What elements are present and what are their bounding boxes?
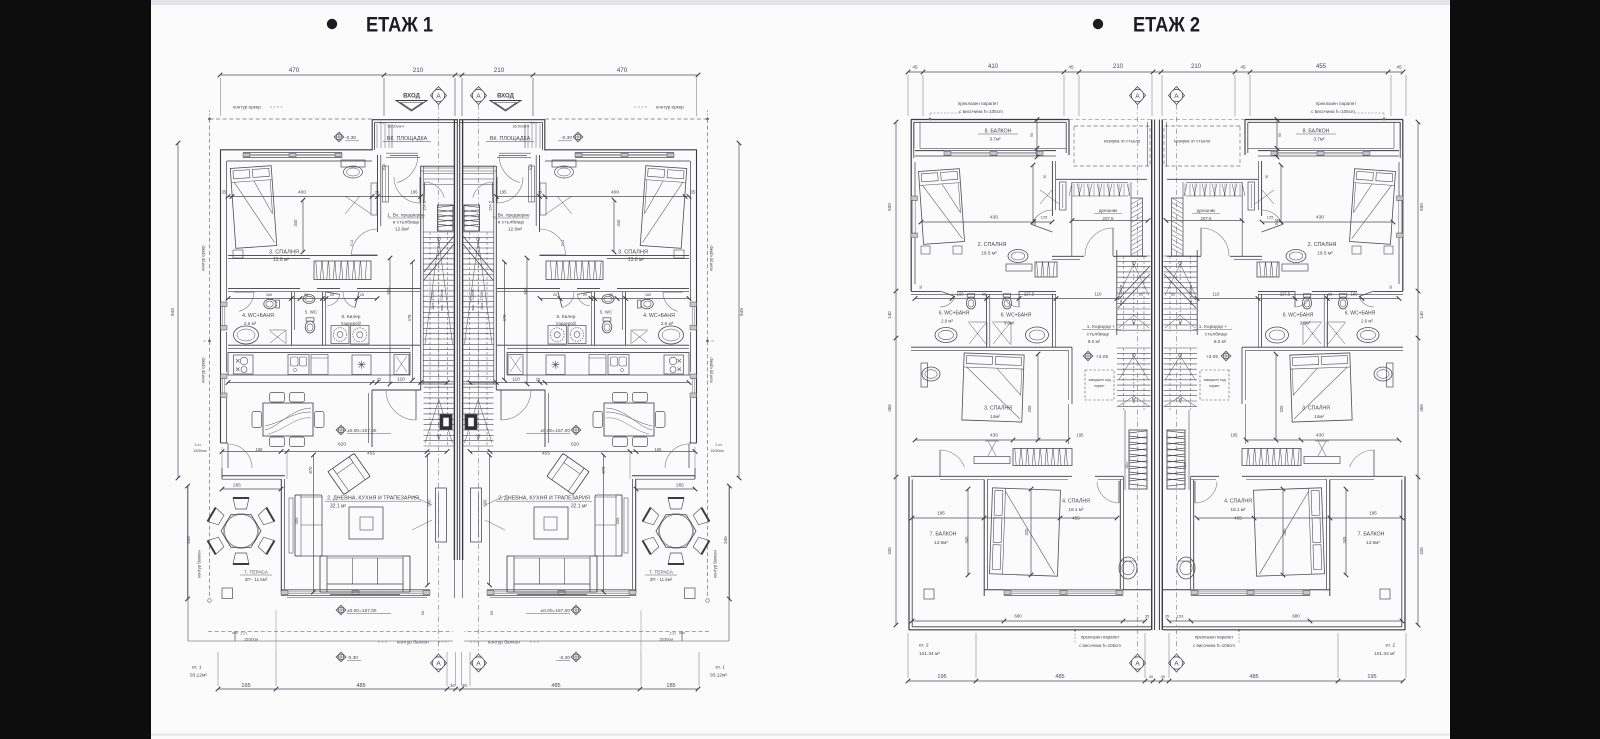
dim vertical 945 [738, 143, 740, 478]
fridge [394, 355, 409, 375]
shower corner [269, 330, 286, 344]
dressing table b2 [1282, 264, 1308, 271]
dreshnik comb hatch [1069, 184, 1072, 197]
svg-text:5. WC: 5. WC [600, 310, 612, 315]
svg-text:15/30см: 15/30см [193, 449, 207, 453]
bed b4 [990, 488, 1061, 576]
bed b4 [1254, 488, 1325, 576]
bed b3 [1290, 353, 1352, 422]
svg-text:преклазен парапет: преклазен парапет [1316, 101, 1357, 106]
svg-text:12.6м²: 12.6м² [395, 227, 410, 233]
svg-text:4. WC+БАНЯ: 4. WC+БАНЯ [643, 313, 675, 319]
stove [664, 355, 684, 374]
entry triangle [490, 101, 521, 112]
svg-text:8. БАЛКОН: 8. БАЛКОН [1303, 129, 1330, 135]
stair bottom walls [463, 383, 496, 385]
svg-text:485: 485 [551, 683, 560, 689]
svg-text:18.1 м²: 18.1 м² [1231, 507, 1246, 512]
svg-text:ет. 1: ет. 1 [192, 665, 202, 671]
svg-text:ВК. ПЛОЩАДКА: ВК. ПЛОЩАДКА [387, 136, 428, 142]
svg-text:160: 160 [645, 293, 651, 297]
parapet dashed leader bottom [1238, 630, 1240, 643]
svg-text:165: 165 [241, 683, 250, 689]
svg-text:3.6м²: 3.6м² [1300, 321, 1311, 326]
section marker p2 [1169, 87, 1185, 105]
svg-text:A: A [476, 93, 481, 100]
outer left wall [910, 162, 912, 291]
svg-text:+3.05: +3.05 [1096, 354, 1108, 360]
svg-text:A: A [1135, 93, 1140, 100]
parapet dashed leader top [1383, 113, 1385, 119]
bedroom4 top wall [984, 475, 1072, 477]
party wall p2 [1161, 120, 1163, 631]
window band bottom (living) [281, 589, 430, 591]
title bullet 2 [1093, 19, 1103, 29]
bottom extension lines [698, 652, 700, 686]
dim b4/balc [1197, 517, 1402, 519]
svg-text:/гардероб/: /гардероб/ [341, 321, 362, 326]
dressing b3 [1304, 457, 1340, 464]
bedroom4 right wall [1119, 480, 1121, 590]
nightstand [233, 250, 243, 258]
door bedroom2 [1262, 210, 1283, 225]
wall: bath bottom [228, 344, 420, 346]
svg-text:19.5 м²: 19.5 м² [981, 251, 997, 257]
entry triangle [396, 101, 427, 112]
desk right wall [371, 183, 377, 215]
svg-text:-0.30: -0.30 [561, 135, 572, 141]
dreshnik shaft hatch [1172, 198, 1184, 256]
sofa [320, 556, 410, 592]
window band bedroom2 top [944, 150, 1043, 152]
bath divider [986, 294, 988, 347]
svg-text:845: 845 [386, 287, 391, 295]
svg-text:680: 680 [1014, 614, 1022, 619]
svg-text:2. ДНЕВНА, КУХНЯ И ТРАПЕЗАРИЯ: 2. ДНЕВНА, КУХНЯ И ТРАПЕЗАРИЯ [327, 496, 419, 502]
svg-text:завършен под: завършен под [1088, 378, 1110, 382]
party wall [453, 120, 455, 560]
svg-text:430: 430 [990, 433, 998, 439]
wall: wing top outer [545, 149, 697, 151]
svg-text:вис. 17/26см: вис. 17/26см [440, 289, 444, 311]
svg-text:2. СПАЛНЯ: 2. СПАЛНЯ [978, 242, 1007, 248]
svg-text:2.6 м³: 2.6 м³ [244, 321, 257, 326]
bedroom4 right wall [1193, 480, 1195, 590]
tv on party wall [471, 488, 482, 542]
svg-text:210: 210 [1191, 64, 1202, 70]
under-stair closet hatch [464, 205, 480, 231]
svg-text:преклазен парапет: преклазен парапет [1195, 635, 1234, 640]
svg-text:90: 90 [1389, 285, 1393, 289]
svg-text:контур балкон: контур балкон [397, 640, 429, 646]
nightstands b2 [1384, 246, 1393, 254]
dim b3 430 [915, 439, 1068, 441]
wall: wing top outer [220, 149, 372, 151]
svg-text:±0.00=157.00: ±0.00=157.00 [347, 428, 377, 434]
wall: bath top y288 [228, 287, 300, 289]
svg-text:15/30см: 15/30см [710, 449, 724, 453]
stairs cut p2 [1164, 266, 1196, 308]
svg-text:19.5 м²: 19.5 м² [1317, 251, 1333, 257]
nightstands b2 [921, 246, 930, 254]
terrace slab edge [728, 486, 730, 641]
svg-text:345: 345 [723, 536, 728, 544]
svg-text:18ст. 17/26с: 18ст. 17/26с [431, 290, 435, 310]
svg-text:90: 90 [919, 285, 923, 289]
svg-text:16/30см+г: 16/30см+г [387, 125, 405, 129]
svg-text:485: 485 [1249, 674, 1258, 680]
svg-text:95: 95 [1328, 292, 1333, 297]
window band bedroom2 top [1271, 150, 1370, 152]
wc small: sink+toilet [303, 295, 315, 304]
balcony jamb left [913, 122, 915, 148]
svg-text:195: 195 [500, 190, 508, 195]
svg-text:6 ст.: 6 ст. [530, 121, 537, 125]
svg-text:345: 345 [186, 536, 191, 544]
section marker p2 [1130, 87, 1146, 105]
wall: left outer [696, 150, 698, 443]
dreshnik dim [1166, 220, 1242, 222]
planter [222, 588, 233, 599]
bench vertical [295, 495, 322, 556]
balcony top: outer walls [911, 119, 1069, 121]
svg-text:20: 20 [583, 293, 587, 297]
svg-text:500: 500 [1419, 203, 1424, 211]
partition bedroom2/closet [1261, 161, 1263, 216]
dishwasher [589, 355, 606, 375]
top gray strip [151, 0, 1450, 5]
corridor mid area walls [1241, 347, 1243, 404]
dim bedroom 400 [496, 196, 689, 198]
balcony floor edge [920, 147, 1066, 149]
bathtub [659, 326, 684, 344]
unit left [176, 78, 533, 686]
svg-text:4. WC+БАНЯ: 4. WC+БАНЯ [242, 313, 274, 319]
svg-text:контур еркер: контур еркер [656, 105, 684, 110]
dishwasher [311, 355, 328, 375]
door from hall [394, 177, 420, 203]
svg-text:дрешник: дрешник [1099, 208, 1119, 213]
vertical interior dims p2 [1032, 165, 1034, 222]
svg-text:160: 160 [1351, 292, 1359, 297]
svg-text:25: 25 [375, 190, 380, 195]
svg-text:18.1 м²: 18.1 м² [1069, 507, 1084, 512]
svg-text:±0.00=157.00: ±0.00=157.00 [541, 428, 571, 434]
hall shelf [383, 166, 389, 202]
svg-text:140: 140 [887, 311, 892, 319]
bottom extension lines [217, 652, 219, 686]
stove [234, 355, 254, 374]
svg-text:165: 165 [256, 447, 264, 452]
svg-text:с височина h=105cm: с височина h=105cm [1193, 643, 1235, 648]
svg-text:+3.05: +3.05 [1206, 354, 1218, 360]
dim terrace 265 [636, 488, 695, 490]
svg-text:35: 35 [691, 190, 696, 195]
svg-text:154.5: 154.5 [488, 200, 493, 211]
svg-text:345: 345 [1342, 536, 1347, 544]
wc small: sink+toilet [602, 295, 614, 304]
plant stand [1119, 557, 1137, 579]
svg-text:478: 478 [502, 314, 507, 322]
svg-text:870: 870 [308, 466, 313, 474]
dim left vertical p2 [1417, 122, 1419, 625]
svg-text:45: 45 [912, 65, 918, 71]
svg-text:контур еркер: контур еркер [201, 245, 206, 271]
svg-text:227.5: 227.5 [1024, 292, 1035, 297]
dressing b3 [974, 457, 1010, 464]
svg-text:7. БАЛКОН: 7. БАЛКОН [1358, 532, 1385, 538]
wall: left outer [220, 150, 222, 443]
svg-text:93,12м²: 93,12м² [710, 673, 727, 679]
unit right (mirror) [384, 78, 741, 686]
svg-text:455: 455 [1234, 516, 1242, 521]
entrance platform [372, 119, 458, 121]
svg-text:478: 478 [407, 314, 412, 322]
section marker bottom [471, 654, 487, 672]
oven/asterisk unit [352, 355, 371, 375]
svg-text:207.5: 207.5 [1103, 216, 1115, 221]
svg-text:вис. 17/26см: вис. 17/26см [471, 289, 475, 311]
svg-text:ВХОД: ВХОД [497, 94, 515, 100]
closet dreshnik walls [1167, 178, 1258, 180]
wardrobe b3 [1242, 449, 1301, 466]
window top wall [243, 151, 342, 153]
svg-text:90: 90 [420, 610, 425, 615]
section marker top [431, 87, 447, 105]
svg-text:2 ст.: 2 ст. [194, 443, 201, 447]
doors baths p2 [940, 297, 955, 308]
doors baths p2 [1359, 297, 1374, 308]
svg-text:210: 210 [413, 67, 424, 74]
wall: terrace door area [689, 442, 697, 444]
svg-text:90: 90 [1043, 175, 1047, 179]
window band b4 bottom [1004, 589, 1123, 591]
balcony small sq [924, 589, 934, 599]
bath bottom wall [1242, 346, 1403, 348]
svg-text:контур балкон: контур балкон [713, 550, 718, 578]
svg-text:2 ст.: 2 ст. [669, 632, 676, 636]
svg-text:2.6 м³: 2.6 м³ [1361, 319, 1373, 324]
vanity b3 [1387, 363, 1394, 387]
svg-text:25: 25 [377, 377, 382, 382]
outer left wall [1402, 162, 1404, 291]
svg-text:345: 345 [964, 536, 969, 544]
wall: bedroom/hall partition [377, 155, 379, 232]
svg-text:95: 95 [982, 292, 987, 297]
entrance door [397, 156, 418, 183]
svg-text:90,2: 90,2 [382, 164, 386, 171]
dim row kitchen [228, 382, 447, 384]
door bedroom [352, 229, 378, 255]
svg-text:455: 455 [367, 451, 375, 457]
svg-text:455: 455 [542, 451, 550, 457]
bed bedroom2 [919, 169, 965, 245]
svg-text:325: 325 [1279, 405, 1284, 413]
dresser + mirror [341, 160, 365, 167]
stair left wall [495, 166, 497, 390]
window left wall [690, 302, 697, 307]
elev marks [334, 132, 344, 142]
svg-text:3.6м²: 3.6м² [1004, 321, 1015, 326]
bed bedroom3 [640, 166, 686, 249]
door b3 [940, 450, 964, 467]
window left wall [1397, 196, 1404, 201]
dresser + mirror [552, 160, 576, 167]
svg-text:32.1 м²: 32.1 м² [571, 504, 588, 510]
dim row bath p2 [915, 298, 1117, 300]
balcony small sq [1380, 589, 1390, 599]
bath partitions [625, 292, 627, 345]
party wall p2 [1151, 120, 1153, 631]
svg-text:5. WC: 5. WC [305, 310, 317, 315]
stairs cut p2 [1118, 266, 1150, 308]
svg-text:A: A [436, 660, 441, 667]
svg-text:195: 195 [937, 674, 946, 680]
svg-text:500: 500 [887, 203, 892, 211]
under-stair closet hatch [438, 205, 454, 231]
wardrobe bedroom [546, 261, 603, 280]
door bedroom2 [1032, 210, 1053, 225]
svg-text:195: 195 [1369, 511, 1377, 516]
svg-text:680: 680 [1292, 614, 1300, 619]
svg-text:ЗП - 11.5м²: ЗП - 11.5м² [245, 577, 268, 582]
svg-text:340: 340 [1032, 218, 1037, 226]
svg-text:320: 320 [1024, 528, 1029, 536]
svg-text:стълбище: стълбище [1087, 332, 1110, 338]
armchair [328, 453, 370, 494]
svg-text:165: 165 [655, 447, 663, 452]
entrance platform [459, 119, 545, 121]
dim row bath p2 [1197, 298, 1399, 300]
svg-text:контур балкон: контур балкон [197, 550, 202, 578]
staircase [424, 231, 455, 233]
svg-text:140: 140 [1419, 311, 1424, 319]
dim vertical 945 [177, 143, 179, 478]
svg-text:90: 90 [1030, 133, 1034, 137]
hall lower walls [371, 390, 373, 447]
svg-text:7. БАЛКОН: 7. БАЛКОН [930, 532, 957, 538]
washer+dryer killer [568, 326, 586, 344]
svg-text:70,2: 70,2 [350, 240, 354, 247]
svg-text:8.0 м²: 8.0 м² [1214, 339, 1227, 344]
terrace slab edge [187, 486, 189, 641]
svg-text:500: 500 [427, 499, 432, 507]
svg-text:325: 325 [1027, 405, 1032, 413]
svg-text:3. СПАЛНЯ: 3. СПАЛНЯ [618, 250, 648, 256]
svg-text:435: 435 [887, 547, 892, 555]
svg-text:18ст.: 18ст. [1125, 461, 1129, 469]
sofa [507, 556, 597, 592]
oven/asterisk unit [546, 355, 565, 375]
door bedroom4 [1195, 482, 1217, 503]
svg-text:210: 210 [1113, 64, 1124, 70]
dim vertical 345 terrace [728, 486, 730, 599]
wall: terrace door area [221, 442, 229, 444]
bottom gray strip [151, 733, 1450, 736]
svg-text:410: 410 [988, 64, 999, 70]
top dim chain plan2 [908, 71, 1403, 73]
bedroom4 walls [1329, 480, 1331, 597]
wall: bedroom/hall partition [539, 155, 541, 232]
stair left wall [420, 166, 422, 390]
bath top wall [911, 290, 940, 292]
svg-text:195: 195 [411, 190, 419, 195]
dim bedroom 400 [228, 196, 421, 198]
toilet wc+bath [264, 299, 280, 309]
window left wall [221, 302, 228, 307]
svg-text:13.6 м²: 13.6 м² [628, 257, 645, 263]
svg-text:195: 195 [1231, 433, 1239, 438]
stair top treads [424, 167, 455, 169]
dim row living [222, 451, 447, 453]
doors baths [663, 292, 678, 311]
dim row living [470, 451, 695, 453]
balcony7 outer walls [1404, 476, 1406, 630]
svg-text:25: 25 [553, 293, 557, 297]
unit right p2 (mirror) [1159, 75, 1420, 678]
svg-text:4. СПАЛНЯ: 4. СПАЛНЯ [1224, 499, 1252, 505]
balcony7 outer walls [908, 476, 910, 630]
wall: terrace top [222, 475, 285, 477]
svg-text:85: 85 [1171, 293, 1175, 297]
dim left vertical p2 [895, 122, 897, 625]
svg-text:400: 400 [611, 190, 619, 196]
erker dashed contour [209, 119, 211, 341]
svg-text:455: 455 [1072, 516, 1080, 521]
bed b3 [962, 353, 1024, 422]
closet dreshnik walls [1056, 178, 1147, 180]
vertical interior dims [613, 200, 615, 252]
canopy dashed [1074, 126, 1150, 166]
kitchen counter [507, 353, 689, 376]
balcony top: outer walls [1245, 119, 1403, 121]
svg-text:1. Коридор +: 1. Коридор + [1087, 324, 1116, 330]
bottom dim chain plan2 [908, 680, 1403, 682]
wall: living left [280, 479, 282, 592]
pier + tv bedroom2 [1248, 182, 1255, 210]
stairs p2 upper [1164, 255, 1198, 257]
bottom dim chain plan1 [218, 688, 698, 690]
svg-text:ЕТАЖ 1: ЕТАЖ 1 [366, 14, 433, 37]
svg-text:и стълбище: и стълбище [498, 220, 525, 226]
svg-text:2. СПАЛНЯ: 2. СПАЛНЯ [1308, 242, 1337, 248]
dreshnik shaft hatch [1131, 198, 1143, 256]
svg-text:±0.00=157.00: ±0.00=157.00 [347, 608, 377, 614]
svg-text:455: 455 [1316, 64, 1327, 70]
svg-text:945: 945 [739, 308, 745, 316]
svg-text:6. WC+БАНЯ: 6. WC+БАНЯ [939, 311, 970, 317]
dim bedroom2 430 [921, 221, 1052, 223]
party wall [462, 120, 464, 560]
svg-text:ет. 2: ет. 2 [1385, 643, 1395, 649]
corridor mid area walls [1071, 347, 1073, 404]
plant stand [1177, 557, 1195, 579]
svg-text:125: 125 [1041, 215, 1048, 220]
washer+dryer killer [331, 326, 349, 344]
dining table [263, 403, 313, 436]
svg-text:95: 95 [304, 293, 308, 297]
bath divider [1326, 294, 1328, 347]
svg-text:8. БАЛКОН: 8. БАЛКОН [985, 129, 1012, 135]
step note tick [681, 631, 683, 641]
svg-text:365: 365 [1419, 404, 1424, 412]
section marker bottom [431, 654, 447, 672]
stairs p2 lower [1117, 347, 1151, 349]
nightstand [674, 250, 684, 258]
svg-text:1. Коридор +: 1. Коридор + [1199, 324, 1228, 330]
svg-text:45: 45 [1396, 65, 1402, 71]
door terrace [665, 444, 689, 468]
